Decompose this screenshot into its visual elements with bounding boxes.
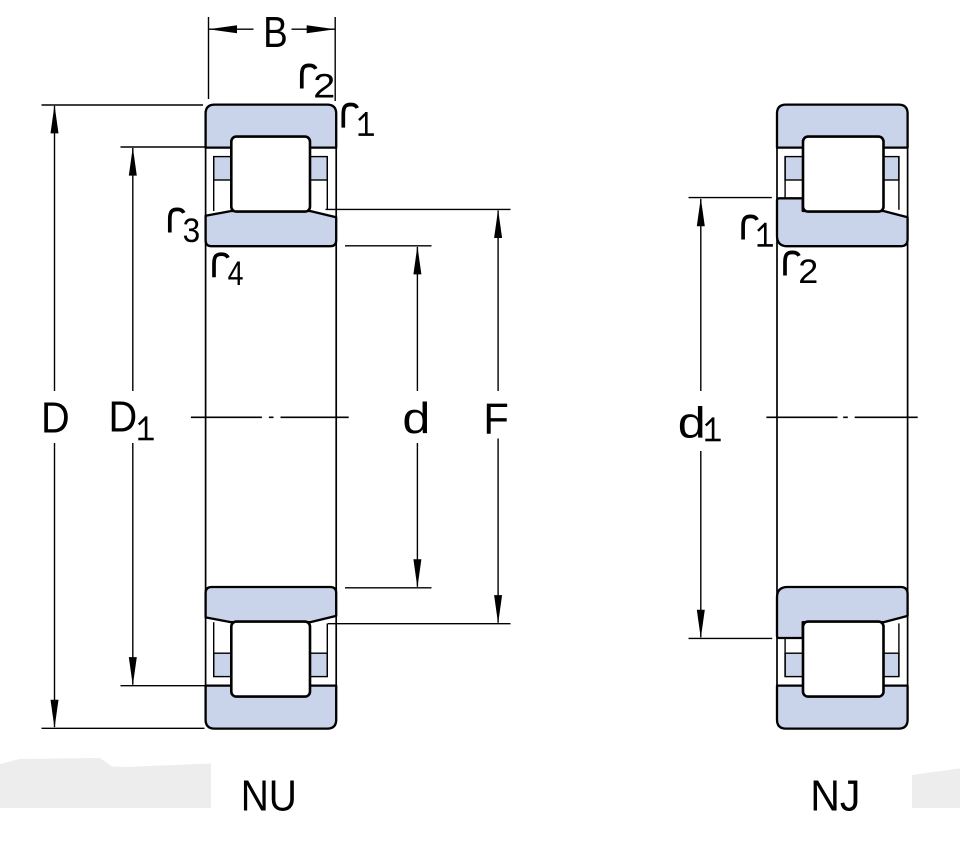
dimension B line left segment (209, 28, 254, 30)
svg-text:D: D (109, 393, 138, 442)
dimension B extension line right (334, 17, 336, 101)
NJ bearing left face line (776, 111, 778, 723)
label r4 (NU inner ring bore corner) (214, 254, 228, 277)
dimension B line right segment (292, 28, 336, 30)
dimension F extension line bottom (328, 623, 511, 625)
dimension F extension line top (326, 208, 511, 210)
NJ bearing right face line (907, 111, 909, 723)
NU bearing right face line (335, 111, 337, 723)
svg-text:F: F (483, 395, 509, 444)
dimension B arrow right (307, 25, 336, 33)
svg-text:D: D (41, 394, 70, 443)
svg-text:2: 2 (798, 253, 818, 291)
NU roller (top section) (231, 137, 310, 212)
dimension D line (54, 106, 56, 391)
NJ roller (top section) (803, 137, 884, 212)
dimension D1 extension line bottom (121, 685, 207, 687)
NJ cage pocket left (bottom section) (785, 653, 803, 676)
dimension d extension line bottom (345, 587, 432, 589)
svg-text:NU: NU (241, 773, 297, 821)
dimension d extension line top (345, 245, 432, 247)
dimension d line (416, 247, 418, 391)
label r1 (NU outer ring bore corner) (343, 105, 357, 128)
NU cage pocket left (top section) (214, 157, 232, 180)
NJ cage pocket left (top section) (785, 157, 803, 180)
svg-text:B: B (263, 8, 288, 57)
watermark blob bottom-right (912, 769, 960, 809)
NU cage pocket left (bottom section) (214, 653, 232, 676)
NU cage pocket right (bottom section) (310, 653, 327, 676)
NJ inner ring with flange (bottom section) (777, 587, 908, 638)
dimension d1 line (700, 199, 702, 391)
svg-text:d: d (678, 398, 706, 447)
dimension F arrows (494, 210, 502, 239)
svg-text:NJ: NJ (810, 773, 860, 821)
watermark blob bottom-left (0, 758, 211, 808)
svg-text:4: 4 (228, 255, 244, 293)
dimension B arrow left (209, 25, 238, 33)
dimension D1 extension line top (121, 146, 206, 148)
NU outer ring (top section) (206, 105, 337, 148)
svg-text:3: 3 (183, 212, 201, 250)
NU roller (bottom section) (231, 622, 310, 697)
NU outer ring (bottom section) (206, 686, 337, 729)
NJ axis centerline (766, 416, 917, 418)
NJ cage pocket right (bottom section) (884, 653, 899, 676)
dimension B extension line left (208, 17, 210, 99)
dimension D extension line bottom (42, 727, 205, 729)
label r1 (NJ inner ring flange corner) (743, 216, 757, 239)
dimension D arrows (51, 105, 59, 133)
NJ inner ring with flange (top section) (777, 198, 908, 246)
svg-text:2: 2 (313, 67, 335, 105)
dimension F line (497, 211, 499, 392)
label r2 (NJ inner ring bore corner) (785, 252, 799, 275)
NJ outer ring (bottom section) (777, 686, 908, 729)
dimension d1 extension line bottom (689, 637, 773, 639)
label r3 (NU inner ring corner) (170, 209, 184, 232)
NJ cage pocket right (top section) (884, 157, 899, 180)
NU inner ring (bottom section) (206, 587, 337, 622)
dimension D1 line (132, 148, 134, 391)
NU axis centerline (191, 416, 349, 418)
dimension d arrows (413, 246, 421, 275)
dimension d1 arrows (697, 198, 705, 227)
NU bearing left face line (205, 111, 207, 723)
svg-text:d: d (402, 394, 430, 443)
label r2 (NU outer ring outer corner) (302, 65, 316, 88)
dimension D extension line top (42, 104, 204, 106)
NU inner ring (top section) (206, 211, 337, 246)
dimension D1 arrows (129, 147, 137, 176)
NU cage pocket right (top section) (310, 157, 327, 180)
NJ roller (bottom section) (803, 622, 884, 697)
NJ outer ring (top section) (777, 105, 908, 148)
dimension d1 extension line top (689, 197, 772, 199)
